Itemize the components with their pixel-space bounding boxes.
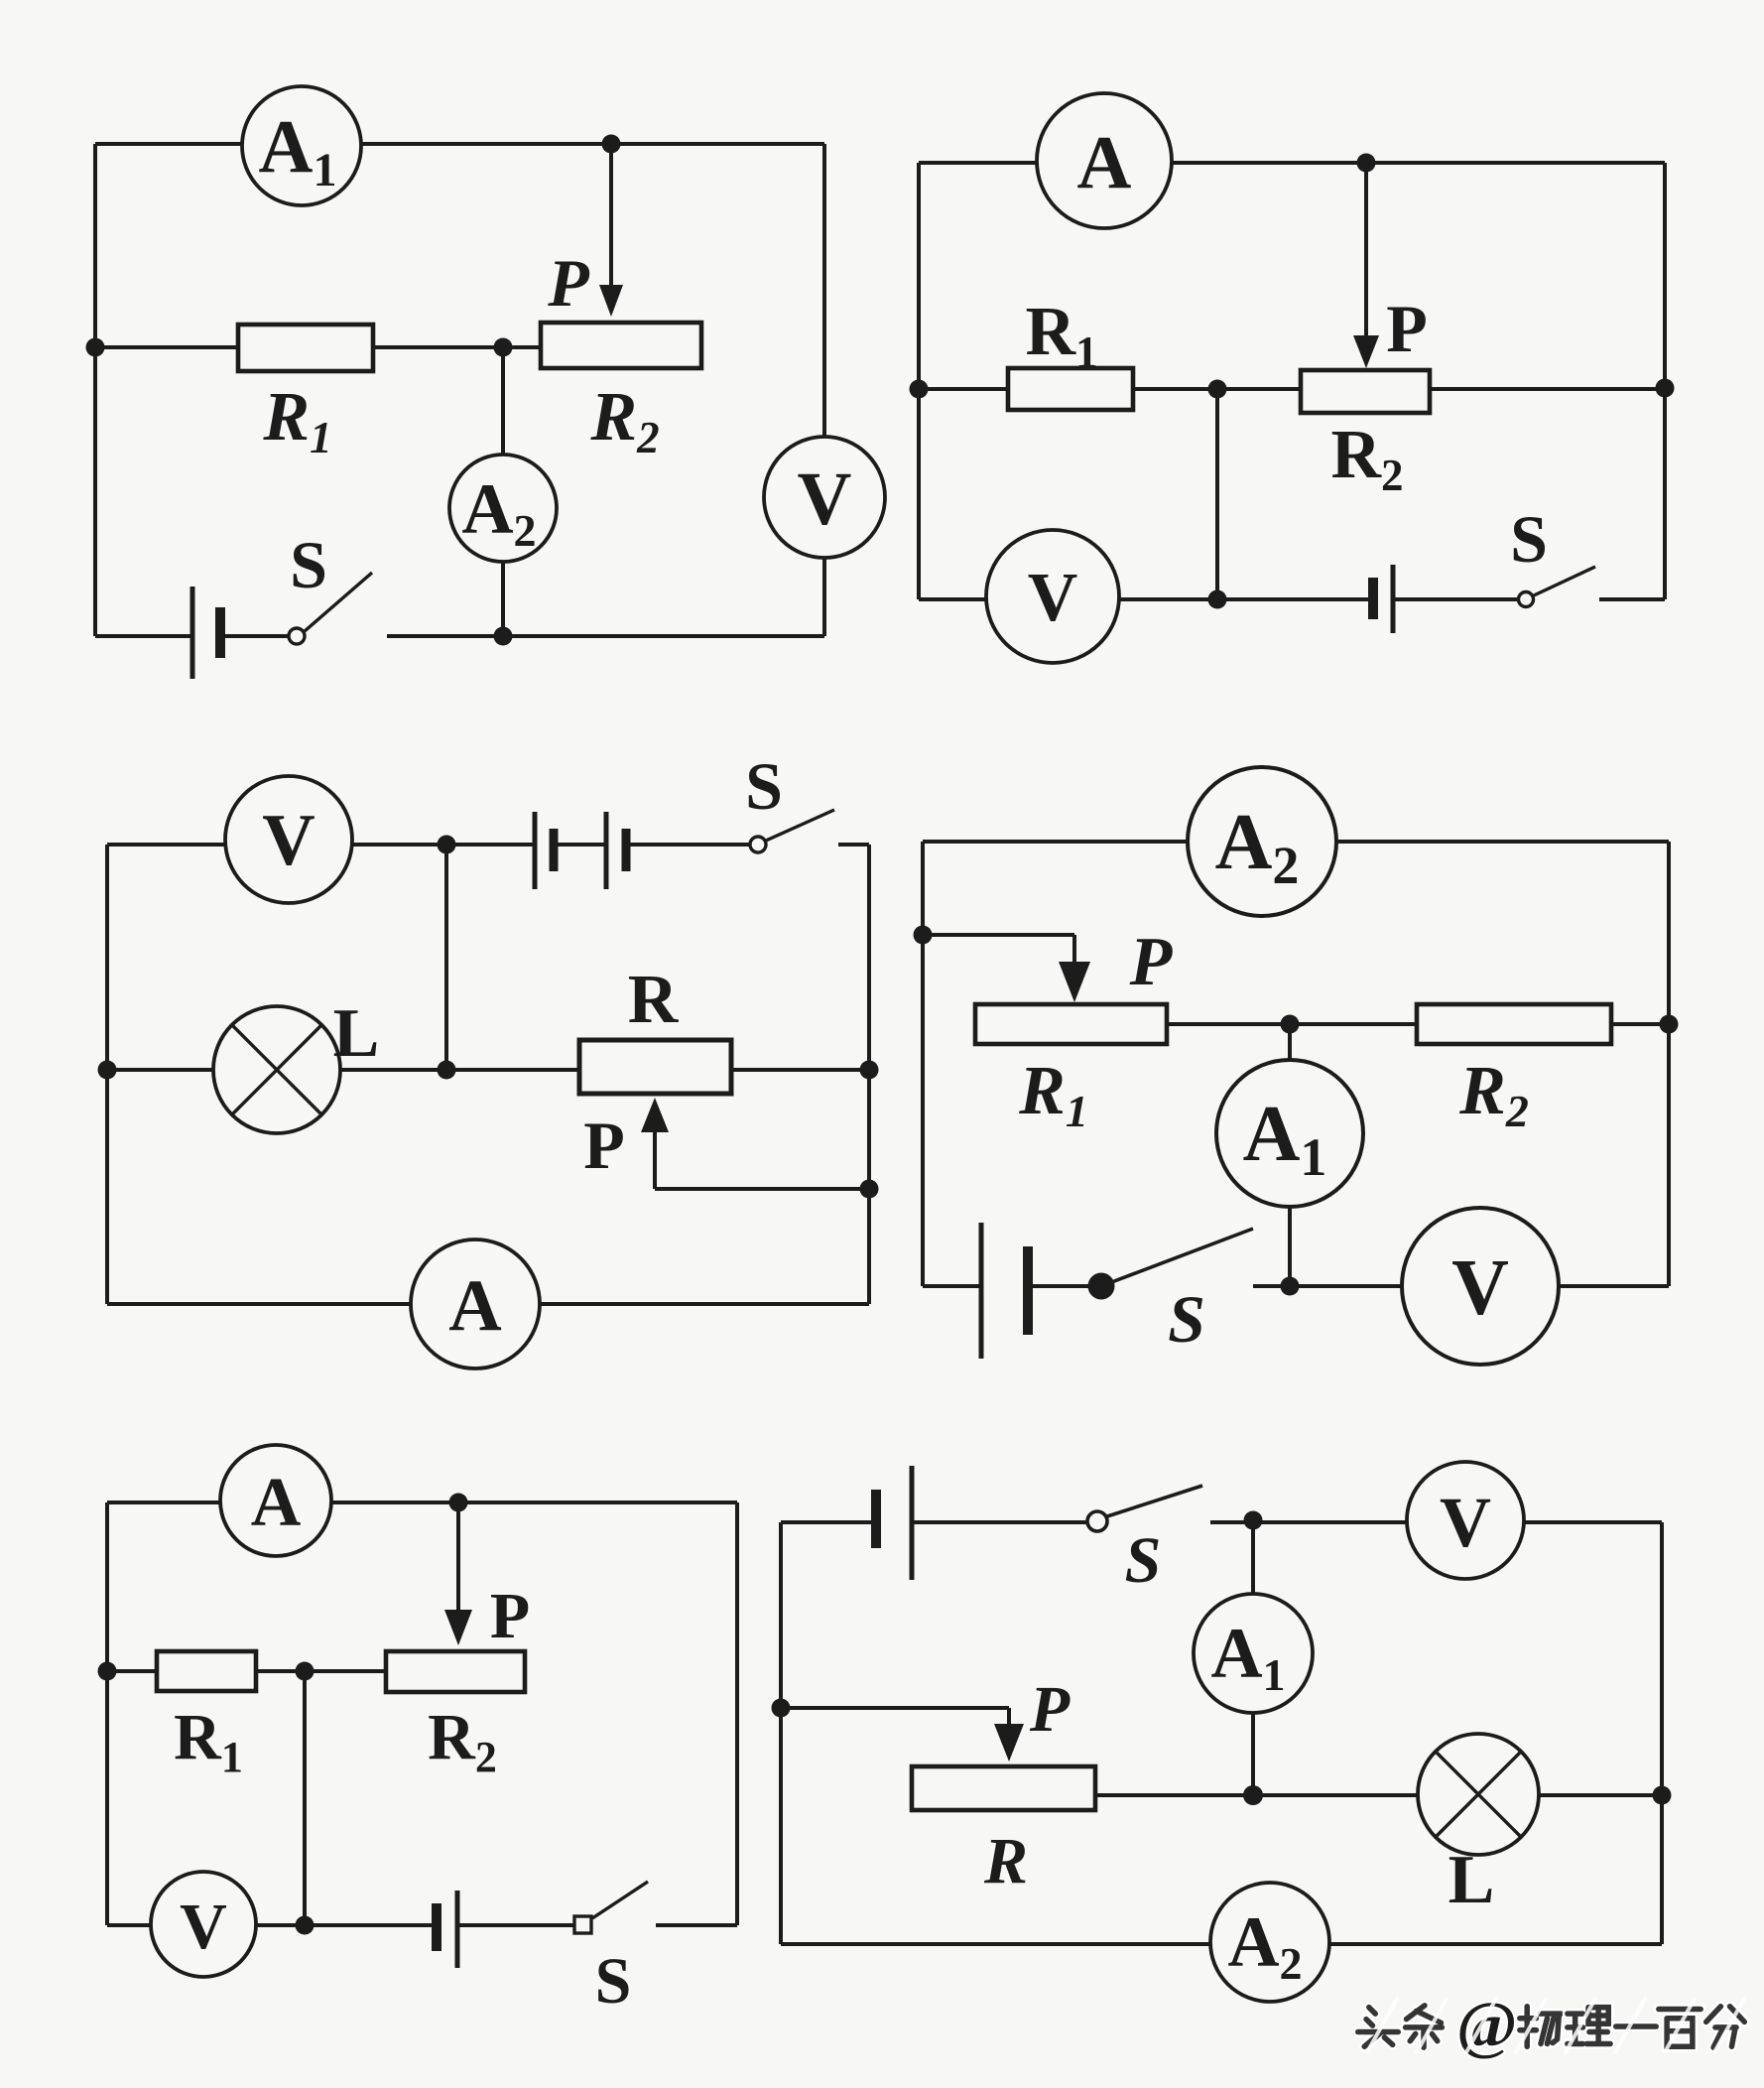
slider arrow P : circuit4 arrowhead: [1059, 962, 1090, 1002]
svg-text:P: P: [1386, 291, 1428, 366]
rheostat R2 : circuit2 box: [1301, 370, 1430, 413]
svg-text:S: S: [1168, 1281, 1205, 1357]
wire : circuit5 middle wire R1 to R2: [256, 1669, 386, 1673]
wire : circuit1 battery to switch: [220, 634, 289, 638]
node : circuit6 junction slider left: [772, 1699, 791, 1718]
svg-text:P: P: [547, 245, 589, 321]
wire : circuit6 bottom wire: [781, 1942, 1662, 1946]
wire : circuit4 top wire: [923, 840, 1669, 844]
node : circuit6 junction top: [1244, 1511, 1263, 1530]
svg-text:P: P: [490, 1580, 530, 1652]
switch S : circuit1 blade: [305, 573, 372, 631]
wire : circuit2 right edge: [1663, 163, 1667, 599]
svg-text:V: V: [1451, 1244, 1509, 1332]
wire : circuit3 branch from top junction down: [444, 845, 448, 1070]
svg-text:P: P: [1029, 1673, 1071, 1746]
wire : circuit5 bottom wire: [107, 1923, 437, 1927]
wire : circuit2 switch to bottom-right corner: [1599, 597, 1665, 601]
node : circuit4 junction bottom: [1281, 1277, 1300, 1296]
glyph 一: [1616, 2016, 1656, 2037]
node : circuit5 junction left middle: [98, 1662, 117, 1681]
svg-text:V: V: [262, 800, 315, 881]
wire : circuit1 A2 branch: [501, 347, 505, 636]
node : circuit3 junction mid middle: [438, 1061, 456, 1080]
rheostat R : circuit3 box: [579, 1040, 731, 1094]
slider arrow P : circuit6 arrowhead: [994, 1724, 1024, 1762]
slider arrow P : circuit3 arrowhead pointing up: [641, 1098, 669, 1132]
battery : circuit4 long plate: [979, 1223, 984, 1359]
battery : circuit3 cell1 short thick plate: [550, 829, 559, 871]
wire : circuit2 middle wire: [919, 387, 1665, 391]
node : circuit6 junction middle: [1243, 1785, 1263, 1805]
ammeter A2 : circuit4: [1188, 767, 1336, 916]
ammeter A : circuit5: [220, 1445, 331, 1556]
slider arrow P : circuit3 shaft: [653, 1131, 657, 1189]
slider arrow P : circuit5 arrowhead: [444, 1610, 472, 1645]
switch S : circuit4 pivot dot: [1088, 1273, 1115, 1300]
lamp L : circuit3 bulb circle: [213, 1006, 340, 1133]
wire : circuit4 A1 branch: [1288, 1024, 1292, 1286]
wire : circuit3 top wire left of battery: [107, 843, 535, 847]
wire : circuit4 bottom wire left: [923, 1284, 981, 1288]
rheostat R2 : circuit5 box: [386, 1651, 525, 1692]
battery : circuit6 short thick plate: [871, 1490, 881, 1548]
switch S : circuit5 pivot square: [574, 1916, 591, 1933]
battery : circuit1 cell long plate: [190, 587, 195, 679]
ammeter A1 : circuit1: [242, 86, 361, 205]
svg-text:V: V: [180, 1891, 227, 1963]
wire : circuit1 slider vertical from top wire: [609, 144, 613, 291]
wire : circuit5 branch mid vertical: [303, 1671, 307, 1925]
watermark text : 头条 @物理一百分: [1358, 1989, 1745, 2061]
svg-text:V: V: [1028, 560, 1078, 636]
wire : circuit5 slider vertical from top wire: [456, 1502, 460, 1613]
ammeter A : circuit2: [1037, 93, 1172, 228]
wire : circuit3 switch to top-right corner: [838, 843, 869, 847]
node : circuit5 junction top: [449, 1494, 468, 1512]
svg-text:P: P: [583, 1108, 625, 1183]
slider arrow P : circuit4 shaft: [1072, 935, 1076, 965]
resistor R1 : circuit5 box: [157, 1651, 256, 1691]
switch S : circuit2 pivot: [1519, 592, 1534, 607]
wire : circuit5 top wire: [107, 1501, 737, 1504]
node : circuit2 junction mid middle: [1208, 380, 1227, 399]
lamp L : circuit6 bulb circle: [1418, 1734, 1539, 1855]
voltmeter V : circuit6: [1407, 1462, 1524, 1579]
svg-text:S: S: [595, 1945, 632, 2018]
wire : circuit3 middle wire: [107, 1068, 869, 1072]
wire : circuit2 branch mid vertical: [1215, 389, 1219, 599]
glyph 理: [1568, 2008, 1610, 2044]
node : circuit2 junction right middle: [1656, 379, 1675, 398]
svg-text:S: S: [745, 748, 783, 824]
wire : circuit6 switch to top-right corner: [1210, 1520, 1662, 1524]
node : circuit2 junction bottom: [1208, 590, 1227, 609]
lamp L : circuit3 bulb cross: [232, 1025, 321, 1114]
wire : circuit1 middle wire left: [95, 345, 238, 349]
lamp L : circuit6 bulb cross: [1436, 1752, 1521, 1837]
rheostat R : circuit6 box: [912, 1766, 1095, 1810]
wire : circuit6 A1 branch: [1251, 1522, 1255, 1795]
node : circuit2 junction top wire: [1357, 154, 1376, 173]
battery : circuit2 long plate: [1391, 565, 1396, 633]
wire : circuit1 top wire: [95, 142, 824, 146]
wire : circuit3 right edge: [867, 845, 871, 1304]
svg-text:S: S: [290, 527, 327, 602]
svg-text:R: R: [628, 962, 680, 1038]
glyph 条: [1406, 2006, 1443, 2047]
wire : circuit4 slider feed horizontal: [923, 933, 1074, 937]
wire : circuit6 slider feed horizontal: [781, 1706, 1009, 1710]
wire : circuit6 middle wire: [1095, 1793, 1662, 1797]
wire : circuit2 battery to switch: [1393, 597, 1519, 601]
wire : circuit2 bottom wire left: [919, 597, 1373, 601]
svg-text:A: A: [251, 1465, 302, 1541]
node : circuit2 junction left middle: [910, 380, 929, 399]
wire : circuit4 left edge: [921, 842, 925, 1286]
glyph 百: [1659, 2010, 1701, 2047]
rheostat R1 : circuit4 box: [975, 1004, 1167, 1044]
svg-text:V: V: [798, 457, 852, 541]
svg-text:A: A: [448, 1265, 501, 1347]
ammeter A : circuit3: [411, 1240, 540, 1369]
voltmeter V : circuit3: [225, 776, 352, 903]
node : circuit3 junction left middle: [98, 1061, 117, 1080]
voltmeter V : circuit4: [1402, 1208, 1559, 1365]
wire : circuit3 between battery cells: [554, 843, 606, 847]
battery : circuit5 short thick plate: [432, 1903, 441, 1951]
switch S : circuit2 blade: [1534, 567, 1595, 595]
wire : circuit2 top wire: [919, 161, 1665, 165]
node : circuit4 junction middle: [1281, 1015, 1300, 1034]
wire : circuit4 bottom wire right of switch: [1253, 1284, 1669, 1288]
resistor R1 : circuit1 box: [238, 325, 373, 371]
svg-text:R: R: [983, 1825, 1028, 1897]
wire : circuit6 left edge: [779, 1522, 783, 1944]
wire : circuit1 left edge: [93, 144, 97, 636]
wire : circuit3 slider to right edge: [655, 1187, 869, 1191]
wire : circuit6 battery to switch: [912, 1520, 1087, 1524]
battery : circuit3 cell2 short thick plate: [622, 829, 631, 871]
ammeter A2 : circuit1: [449, 455, 557, 562]
wire : circuit4 right edge: [1667, 842, 1671, 1286]
node : circuit1 junction left middle: [86, 338, 105, 357]
wire : circuit4 middle wire: [1167, 1022, 1669, 1026]
ammeter A2 : circuit6: [1210, 1883, 1329, 2002]
resistor R2 : circuit4 box: [1417, 1004, 1611, 1044]
node : circuit3 junction right middle: [860, 1061, 879, 1080]
slider arrow P : circuit6 shaft: [1007, 1708, 1011, 1727]
wire : circuit2 slider vertical from top wire: [1364, 163, 1368, 339]
wire : circuit5 right edge: [735, 1502, 739, 1925]
wire : circuit6 top wire left of battery: [781, 1520, 876, 1524]
battery : circuit2 short thick plate: [1368, 578, 1378, 619]
ammeter A1 : circuit4: [1216, 1060, 1363, 1207]
svg-text:A: A: [1077, 121, 1132, 204]
wire : circuit1 right edge: [822, 144, 826, 636]
wire : circuit5 switch to bottom-right corner: [656, 1923, 737, 1927]
wire : circuit4 battery to switch pivot: [1028, 1284, 1101, 1288]
svg-text:S: S: [1510, 501, 1548, 577]
battery : circuit3 cell1 long plate: [533, 812, 538, 889]
glyph 头: [1358, 2008, 1398, 2047]
wire : circuit5 battery to switch: [457, 1923, 573, 1927]
wire : circuit5 middle wire left: [107, 1669, 157, 1673]
wire : circuit2 left edge: [917, 163, 921, 599]
switch S : circuit5 blade: [592, 1882, 648, 1918]
switch S : circuit1 pivot: [289, 628, 305, 644]
voltmeter V : circuit5: [151, 1872, 256, 1977]
node : circuit4 junction right middle: [1660, 1015, 1679, 1034]
watermark white hatch slashes: [1367, 1999, 1744, 2052]
switch S : circuit4 blade: [1101, 1229, 1253, 1286]
switch S : circuit6 blade: [1107, 1486, 1202, 1516]
node : circuit1 junction mid middle: [494, 338, 513, 357]
node : circuit4 junction left edge: [914, 926, 933, 945]
svg-text:P: P: [1129, 924, 1174, 1000]
wire : circuit3 bottom wire: [107, 1302, 869, 1306]
node : circuit3 junction top: [438, 836, 456, 854]
wire : circuit1 bottom wire left of battery: [95, 634, 192, 638]
battery : circuit5 long plate: [455, 1891, 460, 1968]
wire : circuit1 switch to bottom-right corner: [387, 634, 824, 638]
wire : circuit3 left edge: [105, 845, 109, 1304]
battery : circuit6 long plate: [910, 1466, 915, 1580]
resistor R1 : circuit2 box: [1008, 368, 1133, 410]
svg-text:L: L: [333, 995, 380, 1072]
voltmeter V : circuit2: [986, 530, 1119, 663]
battery : circuit3 cell2 long plate: [604, 812, 609, 889]
wire : circuit1 middle wire R1 to R2: [373, 345, 541, 349]
node : circuit3 junction right slider: [860, 1180, 879, 1199]
node : circuit5 junction bottom: [296, 1916, 315, 1935]
wire : circuit6 right edge: [1660, 1522, 1664, 1944]
svg-text:V: V: [1440, 1483, 1491, 1562]
switch S : circuit3 blade: [766, 810, 834, 841]
switch S : circuit3 pivot: [750, 837, 766, 852]
node : circuit6 junction right middle: [1653, 1786, 1672, 1805]
wire : circuit5 left edge: [105, 1502, 109, 1925]
glyph 分: [1706, 2007, 1745, 2047]
slider arrow P : circuit2 arrowhead: [1353, 335, 1379, 368]
wire : circuit3 battery to switch: [626, 843, 750, 847]
svg-text:S: S: [1125, 1524, 1162, 1597]
glyph 物: [1520, 2007, 1561, 2046]
voltmeter V : circuit1: [764, 437, 885, 558]
battery : circuit4 short thick plate: [1023, 1246, 1033, 1335]
svg-text:L: L: [1449, 1842, 1495, 1918]
battery : circuit1 cell short thick plate: [215, 607, 225, 658]
switch S : circuit6 pivot: [1087, 1511, 1107, 1531]
ammeter A1 : circuit6: [1194, 1594, 1313, 1713]
node : circuit5 junction mid middle: [296, 1662, 315, 1681]
slider arrow P : circuit1 arrowhead: [599, 285, 623, 317]
rheostat R2 : circuit1 box: [541, 323, 701, 368]
node : circuit1 junction top wire: [602, 135, 621, 154]
node : circuit1 junction bottom: [494, 627, 513, 646]
